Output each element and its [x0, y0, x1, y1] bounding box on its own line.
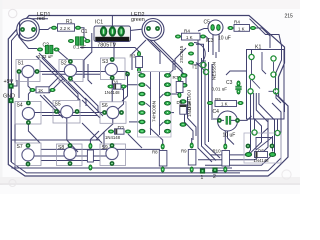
- svg-text:1 K: 1 K: [221, 102, 228, 107]
- wire LED1 to C2: [19, 37, 38, 49]
- wire diag bundle mid extra: [42, 58, 78, 100]
- wire S4 top to R2: [28, 91, 31, 100]
- wire C5 corridor verticals: [198, 34, 212, 162]
- wire S3 bottom to S6: [111, 78, 113, 102]
- wire S9 diag: [96, 132, 104, 140]
- wire row2 horizontal a: [30, 112, 104, 114]
- resistor R2: [30, 87, 56, 93]
- wire relay left down: [249, 94, 251, 153]
- wire GND vertical: [14, 103, 16, 168]
- wire C4 left: [211, 118, 218, 120]
- wire IC2 right fanout: [171, 94, 180, 97]
- diode D5: [245, 149, 276, 164]
- wire corridor top links: [196, 34, 198, 50]
- wire pad column down: [185, 108, 194, 140]
- resistor R9: [181, 143, 196, 173]
- diode D2: [105, 126, 131, 140]
- page bottom strip: [0, 177, 300, 184]
- svg-text:NE555N: NE555N: [212, 61, 218, 80]
- svg-text:S6: S6: [102, 103, 108, 109]
- svg-text:R4: R4: [184, 29, 190, 34]
- svg-text:C1: C1: [81, 29, 88, 35]
- wire D5 right up: [272, 136, 274, 152]
- wire relay top stub: [251, 50, 253, 55]
- wire LED1 to R1: [34, 28, 55, 30]
- svg-text:1N4148: 1N4148: [105, 135, 121, 140]
- svg-text:C3: C3: [226, 80, 233, 86]
- svg-text:R9: R9: [181, 149, 187, 154]
- wire row2 horizontal b: [42, 115, 98, 117]
- svg-text:S2: S2: [61, 61, 67, 67]
- wire IC1 bar down: [113, 42, 115, 59]
- svg-text:7805TV: 7805TV: [97, 43, 116, 49]
- wire T1 left diag: [175, 48, 186, 70]
- wire bottom-right ring t4: [210, 93, 262, 155]
- voltage regulator IC1 7805: [94, 20, 131, 49]
- diode D1: [105, 81, 127, 95]
- outline D4-D5 courtyard: [244, 133, 281, 163]
- wire +9V vertical: [10, 88, 12, 162]
- svg-text:1N4148: 1N4148: [254, 158, 270, 163]
- wire relay to D4: [254, 119, 256, 130]
- switch S3: [101, 57, 126, 80]
- wire under IC1 horizontal: [80, 48, 139, 52]
- wire diagonal S6-D2: [104, 119, 113, 150]
- capacitor C2: [37, 43, 60, 60]
- switch S2: [59, 59, 83, 81]
- svg-text:IC3: IC3: [206, 38, 214, 44]
- board outline inner ground loop: [12, 19, 241, 173]
- board outline outer: [8, 16, 288, 177]
- wire C2 to S2: [57, 50, 71, 62]
- svg-text:S5: S5: [55, 102, 61, 108]
- wire IC2 left fanout: [122, 85, 139, 90]
- svg-text:10 uF: 10 uF: [218, 36, 231, 42]
- wire relay right diagonal: [276, 94, 281, 104]
- via S3 right: [125, 72, 130, 77]
- svg-text:0.33 uF: 0.33 uF: [38, 54, 54, 59]
- svg-text:215: 215: [285, 14, 294, 20]
- capacitor C5 electrolytic: [204, 20, 224, 36]
- page background: [0, 0, 300, 194]
- svg-text:1 K: 1 K: [186, 35, 193, 40]
- svg-text:S7: S7: [17, 144, 23, 150]
- capacitor C6 vertical: [87, 143, 93, 171]
- wire T1 pads right: [196, 44, 204, 62]
- wire R8 R9 verticals: [150, 128, 163, 147]
- via D4 left: [246, 144, 251, 149]
- wire IC2 pin tops: [168, 61, 174, 75]
- switch S8: [57, 143, 83, 166]
- wire gap S4-S5 diagonals: [40, 95, 63, 118]
- svg-text:D3: D3: [177, 100, 183, 105]
- wire R6 to T1: [203, 37, 209, 53]
- switch S1: [16, 60, 40, 82]
- wire gap S5-S6 diagonals: [82, 100, 100, 118]
- svg-text:S4: S4: [17, 103, 23, 109]
- svg-text:green: green: [131, 17, 145, 23]
- wire diagonal bundle left b: [39, 53, 86, 106]
- resistor R3: [130, 51, 143, 73]
- wire diagonal bundle left a: [36, 56, 80, 107]
- resistor R10: [213, 144, 230, 173]
- wire row3 horizontal b: [28, 155, 108, 157]
- wire right mid verticals: [262, 119, 269, 142]
- svg-text:2SC945: 2SC945: [179, 45, 185, 63]
- capacitor C4 electrolytic: [213, 109, 241, 139]
- wire LED2 down diagonals: [150, 40, 186, 84]
- resistor R7: [173, 75, 184, 98]
- wire row3 horizontal a: [41, 148, 160, 150]
- wire mid horizontal y140: [12, 139, 101, 141]
- transistor D4 triangle: [252, 130, 280, 150]
- wire IC1 left pad link: [84, 33, 92, 78]
- IC2 74HC08N: [138, 72, 172, 138]
- svg-text:1 K: 1 K: [238, 26, 245, 31]
- resistor R4 top-right: [228, 20, 257, 32]
- capacitor C3: [212, 80, 242, 95]
- resistor R5: [207, 97, 244, 107]
- wire S1 bottom down: [28, 78, 33, 91]
- wire long bottom horizontal: [12, 167, 233, 169]
- wire gap S1-S2 diagonals: [44, 78, 58, 92]
- svg-text:1N4148: 1N4148: [105, 90, 121, 95]
- wire +9V right: [14, 80, 18, 86]
- wire C6 diag in: [90, 131, 99, 144]
- svg-text:0.1 uF: 0.1 uF: [73, 45, 86, 50]
- svg-text:0,01 uF: 0,01 uF: [212, 87, 228, 92]
- wire C4 right: [240, 116, 252, 120]
- wire S3 right pad down: [122, 74, 128, 101]
- svg-text:S1: S1: [18, 61, 24, 67]
- svg-text:74HC08N: 74HC08N: [152, 100, 158, 122]
- svg-text:R8: R8: [152, 150, 158, 155]
- wire C5 pads down: [212, 30, 214, 55]
- switch S9: [100, 143, 126, 166]
- connector GND: [3, 94, 15, 104]
- wire bottom mid diagonals: [128, 134, 142, 148]
- wire bottom-right ring t1: [212, 103, 281, 171]
- svg-text:R3: R3: [130, 54, 136, 59]
- diode D3 vertical: [177, 99, 193, 127]
- LED2: [142, 19, 164, 41]
- switch S5: [53, 101, 80, 124]
- svg-text:10 uF: 10 uF: [223, 133, 236, 139]
- wire D1 right down: [118, 89, 124, 109]
- svg-text:S8: S8: [58, 145, 64, 151]
- switch S6: [100, 102, 126, 124]
- svg-text:R10: R10: [213, 149, 222, 154]
- wire row1 horizontal b: [42, 73, 100, 75]
- wire diagonal bundle left c: [70, 79, 98, 113]
- wire bottom-right ring t2: [205, 93, 275, 165]
- resistor R8: [152, 144, 167, 173]
- connector +9V: [4, 79, 14, 89]
- LED1: [17, 18, 40, 41]
- capacitor C1: [68, 29, 90, 50]
- svg-text:C4: C4: [213, 109, 220, 115]
- connector pad 2: [212, 167, 217, 180]
- svg-text:T1: T1: [192, 65, 198, 71]
- mounting hole top-left: [9, 9, 17, 17]
- switch S4: [15, 101, 41, 125]
- wire bottom-right ring t3: [198, 93, 268, 160]
- svg-text:1K: 1K: [38, 88, 43, 93]
- svg-text:IC1: IC1: [95, 20, 103, 26]
- svg-text:red: red: [37, 16, 45, 22]
- svg-text:1: 1: [201, 175, 204, 181]
- via D4 right: [270, 144, 275, 149]
- wire row3 horizontal c: [41, 160, 100, 162]
- wire C4 bottom bend: [228, 131, 235, 145]
- wire LED2 down-left: [132, 40, 146, 70]
- wire R4 to relay: [253, 28, 270, 48]
- switch S7: [15, 143, 41, 166]
- svg-text:2.2 K: 2.2 K: [60, 26, 70, 31]
- mounting hole bottom-right: [282, 170, 291, 179]
- mounting hole bottom-left: [9, 180, 16, 187]
- resistor R1: [51, 19, 81, 31]
- wire LED2 bottom diag2: [154, 41, 182, 76]
- resistor R6 mid: [175, 29, 206, 41]
- wire IC1 to LED2: [130, 29, 149, 31]
- svg-text:R4: R4: [234, 20, 240, 25]
- transistor T1 2SC945: [179, 42, 205, 70]
- vias near T1: [201, 62, 206, 67]
- wire IC1 pin2 up: [111, 16, 113, 27]
- relay K1: [247, 45, 285, 120]
- IC4 pads column: [181, 73, 192, 110]
- wire relay left stub: [226, 71, 247, 75]
- svg-text:1N4148: 1N4148: [187, 101, 192, 117]
- wire diagonal S5-S9: [67, 118, 78, 152]
- wire row1 horizontal a: [19, 71, 128, 73]
- connector pad 1: [200, 168, 205, 181]
- wire R1 to C1: [78, 28, 87, 40]
- wire diagonal S4-S7: [28, 124, 40, 144]
- wire LED2 to C5: [198, 29, 208, 32]
- wire S1 left down: [18, 74, 20, 98]
- svg-text:2: 2: [213, 174, 216, 180]
